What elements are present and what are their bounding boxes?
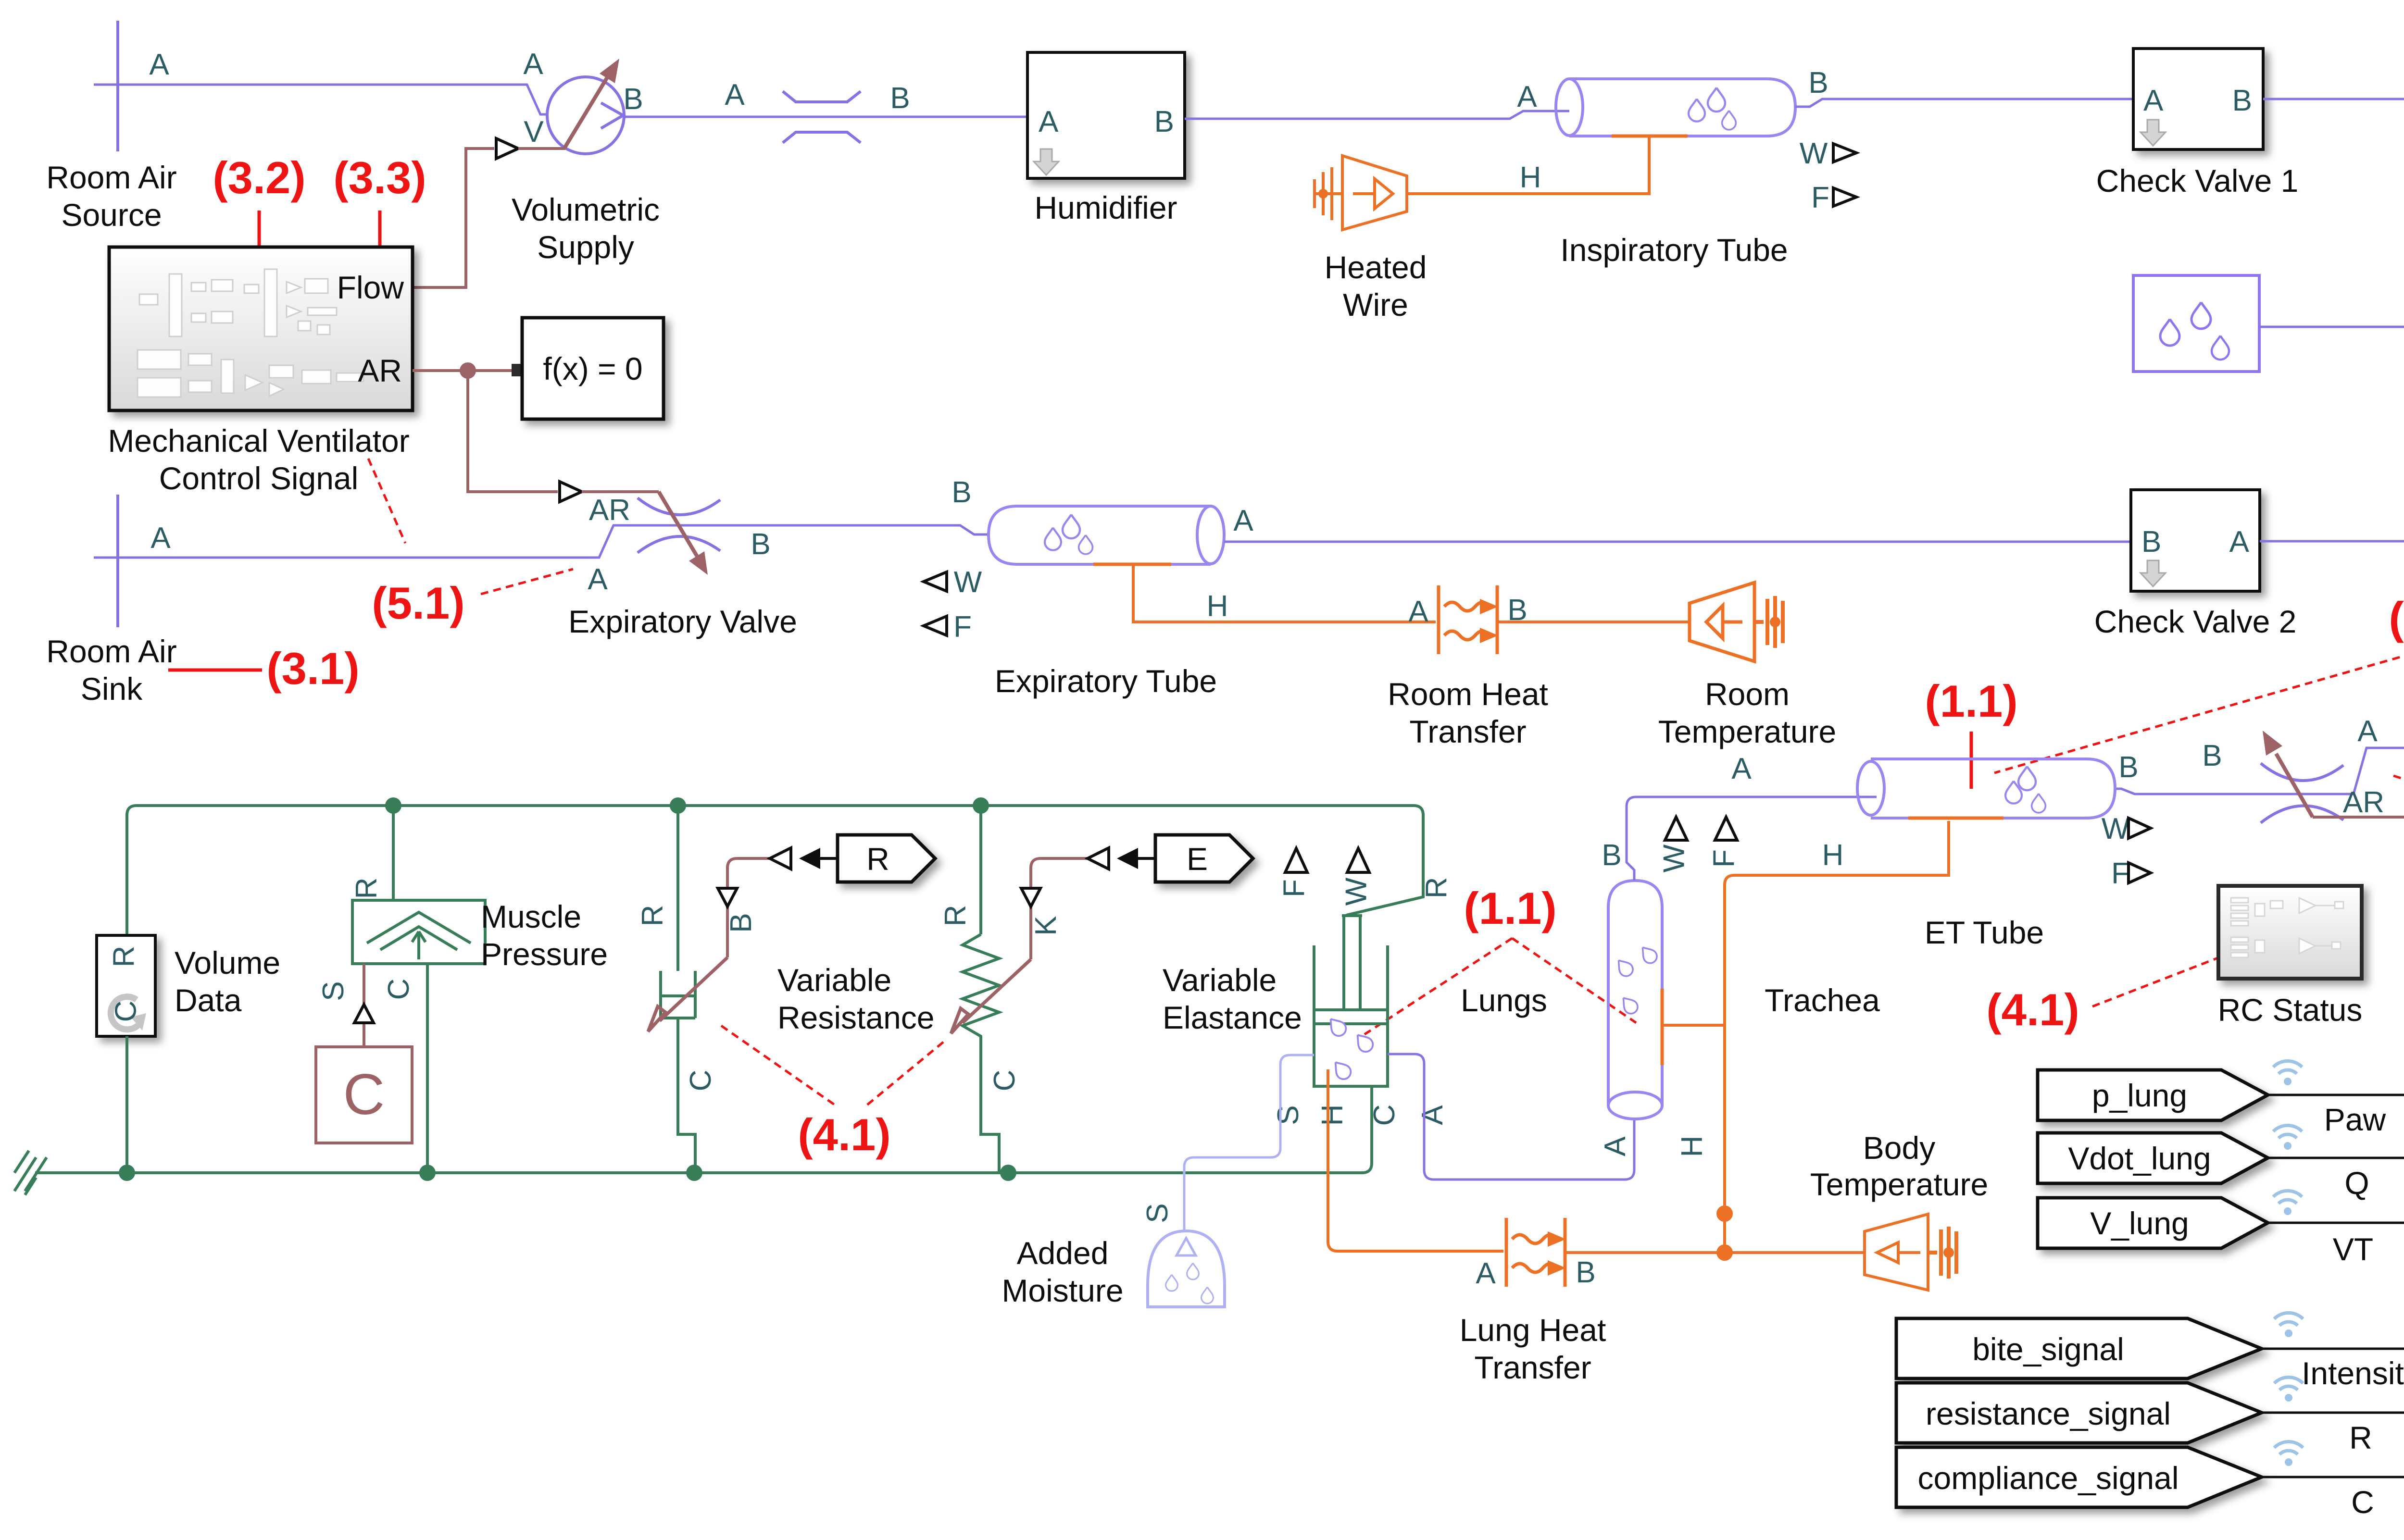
svg-text:B: B xyxy=(2141,525,2161,559)
Heated Wire thermal reference hatch xyxy=(1315,167,1342,220)
svg-text:Control Signal: Control Signal xyxy=(159,460,359,496)
input port triangle V xyxy=(496,138,518,159)
input port triangle AR (expiratory valve) xyxy=(560,482,582,502)
svg-text:H: H xyxy=(1520,161,1541,194)
svg-text:(1.1): (1.1) xyxy=(1464,883,1556,933)
Expiratory Tube droplets xyxy=(1045,528,1061,550)
svg-text:compliance_signal: compliance_signal xyxy=(1918,1460,2179,1496)
svg-text:Source: Source xyxy=(61,197,162,233)
input port triangle K (variable elastance) xyxy=(1021,888,1040,907)
svg-text:A: A xyxy=(1408,595,1428,628)
svg-text:S: S xyxy=(1272,1105,1305,1125)
svg-text:Pressure: Pressure xyxy=(481,936,608,972)
local restriction (inspiratory) xyxy=(783,91,861,102)
svg-text:Vdot_lung: Vdot_lung xyxy=(2068,1141,2211,1176)
From tag bite_signal xyxy=(1896,1318,2262,1379)
svg-text:Variable: Variable xyxy=(1163,962,1277,998)
callout line (4.1)L-a xyxy=(721,1026,836,1105)
svg-text:Room Heat: Room Heat xyxy=(1388,676,1548,712)
wire Volume Data C to bus xyxy=(125,1036,128,1173)
wire Lung Heat Transfer B to Body Temperature xyxy=(1565,1251,1865,1254)
Variable Resistance branch wire xyxy=(676,806,679,971)
svg-text:A: A xyxy=(2357,715,2378,748)
bottom mechanical bus xyxy=(35,1086,1372,1173)
wifi icon V_lung xyxy=(2273,1191,2302,1215)
PS wire AR to f(x)=0 and expiratory valve xyxy=(413,371,558,492)
svg-text:W: W xyxy=(2102,812,2130,845)
svg-text:Expiratory Tube: Expiratory Tube xyxy=(995,663,1217,699)
signal wire C xyxy=(2262,1476,2404,1478)
Added Moisture droplets xyxy=(1166,1275,1178,1291)
Lungs droplets xyxy=(1325,1014,1349,1039)
svg-text:Q: Q xyxy=(2344,1165,2369,1201)
ET Tube body xyxy=(1871,759,2115,818)
svg-text:Body: Body xyxy=(1863,1130,1935,1166)
Body Temperature hatch xyxy=(1928,1227,1956,1279)
svg-text:R: R xyxy=(939,905,972,927)
svg-text:Humidifier: Humidifier xyxy=(1034,190,1177,225)
svg-text:S: S xyxy=(1141,1203,1174,1223)
svg-text:W: W xyxy=(1657,844,1690,872)
wifi icon p_lung xyxy=(2273,1061,2302,1085)
svg-text:F: F xyxy=(1811,181,1829,214)
Body Temperature source trapezoid xyxy=(1865,1214,1928,1290)
From tag arrows (R) xyxy=(770,848,791,869)
bite variable restriction arcs xyxy=(2261,763,2343,781)
wire ET Tube B to bite valve to Sensors B xyxy=(2115,748,2404,794)
svg-text:A: A xyxy=(1517,80,1537,113)
svg-text:C: C xyxy=(343,1062,385,1127)
Muscle Pressure chevrons xyxy=(367,912,471,943)
svg-text:H: H xyxy=(1676,1136,1709,1157)
svg-text:B: B xyxy=(2202,739,2222,772)
Volume Data gray arrow xyxy=(111,997,139,1030)
MVCS faint content xyxy=(138,269,363,397)
svg-text:Volume: Volume xyxy=(175,945,280,981)
svg-text:B: B xyxy=(623,83,643,116)
Body Temperature inner arrow xyxy=(1898,1251,1920,1254)
Trachea heat wall segment xyxy=(1661,989,1664,1065)
Inspiratory Tube droplets xyxy=(1689,99,1705,122)
junction dot AR xyxy=(460,362,476,379)
Humidifier block xyxy=(1027,52,1185,178)
svg-text:Inspiratory Tube: Inspiratory Tube xyxy=(1560,232,1788,268)
Expiratory Valve variable arrow xyxy=(659,492,698,558)
callout line (3.2) xyxy=(258,211,261,246)
svg-text:B: B xyxy=(890,82,910,115)
svg-text:R: R xyxy=(866,841,889,877)
svg-text:C: C xyxy=(988,1070,1021,1092)
PS wire K to From tag (variable elastance) xyxy=(1031,858,1088,959)
junction dot bottom bus 4 xyxy=(1000,1165,1016,1181)
callout line (2.1)-a xyxy=(1994,646,2404,773)
svg-text:(3.1): (3.1) xyxy=(266,643,359,694)
Variable Elastance branch wire xyxy=(979,806,982,934)
svg-text:Intensity: Intensity xyxy=(2302,1355,2404,1391)
Lung Heat Transfer conductor xyxy=(1506,1218,1565,1287)
svg-text:B: B xyxy=(1154,105,1174,138)
svg-text:Transfer: Transfer xyxy=(1474,1350,1591,1385)
svg-text:V_lung: V_lung xyxy=(2090,1205,2189,1241)
svg-text:H: H xyxy=(1316,1105,1349,1126)
svg-text:VT: VT xyxy=(2333,1231,2373,1267)
svg-text:B: B xyxy=(1602,839,1621,872)
signal wire Paw xyxy=(2268,1094,2404,1096)
svg-text:F: F xyxy=(1707,849,1740,868)
svg-text:Temperature: Temperature xyxy=(1658,714,1837,749)
wire Room Air Source A to Volumetric Supply xyxy=(94,85,547,114)
signal wire Intensity xyxy=(2262,1348,2404,1350)
Check Valve 1 gray arrow xyxy=(2141,120,2166,146)
Room Heat Transfer conductor xyxy=(1439,585,1497,654)
svg-text:R: R xyxy=(636,905,669,927)
From tag Vdot_lung xyxy=(2038,1133,2268,1183)
wifi icon bite_signal xyxy=(2274,1313,2303,1337)
From tag E pentagon xyxy=(1155,835,1253,882)
svg-text:B: B xyxy=(751,528,770,561)
Variable Elastance spring xyxy=(963,934,999,1173)
svg-text:(3.2): (3.2) xyxy=(213,152,305,203)
PS wire B to From tag (variable resistance) xyxy=(727,858,769,957)
svg-text:R: R xyxy=(1420,877,1453,899)
From tag arrows (E) xyxy=(1088,848,1109,869)
RC Status block xyxy=(2218,886,2362,979)
callout line (1.1)-b xyxy=(1512,938,1636,1023)
Lungs converter chamber xyxy=(1314,945,1388,1086)
callout line (4.2)-a xyxy=(2393,776,2404,884)
RC Status faint content xyxy=(2231,898,2343,957)
bite valve variable arrow xyxy=(2276,754,2313,817)
PS wire into valve arrow xyxy=(582,490,659,493)
svg-text:Lungs: Lungs xyxy=(1461,982,1547,1018)
svg-text:ET Tube: ET Tube xyxy=(1925,915,2044,950)
wifi icon Vdot_lung xyxy=(2273,1125,2302,1150)
callout line (3.3) xyxy=(378,211,382,246)
svg-text:AR: AR xyxy=(589,494,630,527)
svg-text:A: A xyxy=(1731,752,1752,785)
svg-text:Sink: Sink xyxy=(81,671,143,707)
Heated Wire inner arrow xyxy=(1353,192,1375,195)
svg-text:Supply: Supply xyxy=(537,229,634,265)
svg-text:Volumetric: Volumetric xyxy=(512,192,660,227)
svg-text:C: C xyxy=(2351,1484,2374,1520)
PS wire Muscle Pressure S to C source xyxy=(363,964,365,1047)
wire V triangle to circle xyxy=(518,147,565,150)
svg-text:Lung Heat: Lung Heat xyxy=(1460,1312,1606,1348)
Volumetric Supply variable arrow xyxy=(564,75,609,148)
junction dot top bus 2 xyxy=(670,797,686,814)
svg-text:B: B xyxy=(952,476,971,509)
Check Valve 1 block xyxy=(2133,49,2263,149)
Volumetric Supply flow chevron xyxy=(601,103,623,128)
svg-text:Transfer: Transfer xyxy=(1409,714,1526,749)
junction dot bottom bus 2 xyxy=(419,1165,436,1181)
svg-text:A: A xyxy=(149,48,169,81)
Room Temperature inner arrow xyxy=(1723,621,1742,624)
svg-text:Variable: Variable xyxy=(777,962,891,998)
svg-text:B: B xyxy=(2118,751,2138,784)
wire Heated Wire H to Inspiratory Tube xyxy=(1408,136,1649,194)
svg-text:(1.1): (1.1) xyxy=(1925,676,2017,726)
Lungs piston rod xyxy=(1342,916,1362,1010)
wire Expiratory Tube A to Check Valve 2 B xyxy=(1224,541,2131,543)
svg-text:A: A xyxy=(588,563,608,596)
svg-text:AR: AR xyxy=(358,353,402,388)
svg-text:Moisture: Moisture xyxy=(1002,1273,1123,1308)
svg-text:Wire: Wire xyxy=(1343,287,1408,323)
wire Lungs S to Added Moisture (light) xyxy=(1184,1055,1314,1231)
svg-text:Paw: Paw xyxy=(2324,1102,2386,1137)
svg-text:F: F xyxy=(2111,857,2129,890)
Variable Resistance control arrow xyxy=(660,957,727,1021)
Added Moisture port triangle xyxy=(1177,1238,1196,1255)
svg-text:Mechanical Ventilator: Mechanical Ventilator xyxy=(108,423,409,459)
From tag compliance_signal xyxy=(1896,1447,2262,1507)
wire Inspiratory Tube B to Check Valve 1 xyxy=(1795,99,2133,107)
svg-text:Expiratory Valve: Expiratory Valve xyxy=(568,604,797,639)
svg-text:E: E xyxy=(1187,841,1208,877)
wire Trachea H / ET Tube H (orange trunk) xyxy=(1662,821,1949,1253)
svg-text:A: A xyxy=(1476,1257,1496,1290)
svg-text:Added: Added xyxy=(1017,1235,1109,1271)
svg-text:p_lung: p_lung xyxy=(2092,1078,2187,1113)
Check Valve 2 gray arrow xyxy=(2141,560,2166,586)
svg-text:(2.1): (2.1) xyxy=(2389,593,2404,643)
svg-text:H: H xyxy=(1207,590,1228,623)
wire Room Heat Transfer B to Room Temperature xyxy=(1497,621,1690,623)
svg-text:resistance_signal: resistance_signal xyxy=(1926,1396,2171,1431)
moisture source box xyxy=(2133,275,2259,372)
svg-text:bite_signal: bite_signal xyxy=(1972,1331,2124,1367)
From tag resistance_signal xyxy=(1896,1383,2262,1443)
svg-text:C: C xyxy=(684,1070,717,1092)
callout line (1.1) ET xyxy=(1970,732,1973,789)
Trachea tube body xyxy=(1608,881,1662,1105)
wire Check Valve 1 B to junction xyxy=(2263,99,2404,652)
svg-text:W: W xyxy=(1800,137,1828,170)
svg-text:Data: Data xyxy=(175,982,242,1018)
svg-text:C: C xyxy=(1368,1105,1401,1126)
svg-text:f(x) = 0: f(x) = 0 xyxy=(543,351,642,386)
svg-text:(3.3): (3.3) xyxy=(333,152,426,203)
svg-text:Elastance: Elastance xyxy=(1163,1000,1302,1035)
Humidifier gray arrow xyxy=(1034,149,1059,175)
svg-text:Check Valve 1: Check Valve 1 xyxy=(2096,163,2299,199)
Muscle Pressure source block xyxy=(352,900,485,964)
junction dot top bus 1 xyxy=(385,797,401,814)
svg-text:F: F xyxy=(1277,879,1311,897)
C constant source block xyxy=(316,1047,412,1143)
svg-text:W: W xyxy=(1340,877,1373,906)
Expiratory Tube heat segment xyxy=(1093,563,1171,566)
signal wire VT xyxy=(2268,1222,2404,1224)
svg-text:A: A xyxy=(2229,525,2250,559)
svg-text:Heated: Heated xyxy=(1325,249,1427,285)
Expiratory Valve arcs xyxy=(638,498,720,515)
Room Temperature hatch xyxy=(1754,596,1783,648)
svg-text:B: B xyxy=(725,913,758,932)
wifi icon resistance_signal xyxy=(2274,1377,2303,1402)
From tag V_lung xyxy=(2038,1198,2268,1248)
From tag R pentagon xyxy=(838,835,935,882)
Room Air Source symbol xyxy=(116,21,119,151)
input port triangle B (variable resistance) xyxy=(718,888,737,907)
wire Lungs H to Lung Heat Transfer xyxy=(1328,1069,1503,1251)
Expiratory Tube body xyxy=(989,506,1211,564)
Added Moisture dome xyxy=(1148,1231,1225,1307)
svg-text:Flow: Flow xyxy=(337,270,404,305)
wire Room Air Sink to Expiratory Valve A xyxy=(94,525,989,558)
wire Expiratory Tube H to Room Heat Transfer xyxy=(1133,564,1436,622)
junction dot top bus 3 xyxy=(973,797,989,814)
svg-text:A: A xyxy=(725,78,745,112)
Volume Data block xyxy=(97,935,155,1036)
Variable Elastance control arrow xyxy=(963,959,1031,1023)
svg-text:Check Valve 2: Check Valve 2 xyxy=(2094,604,2297,639)
svg-text:R: R xyxy=(350,878,383,899)
svg-text:R: R xyxy=(2349,1420,2372,1455)
wire Muscle Pressure C to bus xyxy=(426,964,429,1173)
svg-text:(4.1): (4.1) xyxy=(798,1109,890,1160)
wire Humidifier B to Inspiratory Tube A xyxy=(1185,111,1569,119)
svg-text:F: F xyxy=(953,610,972,644)
Expiratory Tube W port xyxy=(924,572,947,591)
svg-text:B: B xyxy=(2232,84,2252,117)
ET Tube droplets xyxy=(2005,781,2022,804)
svg-text:Muscle: Muscle xyxy=(481,899,581,934)
svg-text:Temperature: Temperature xyxy=(1810,1167,1989,1202)
callout line (1.1)-a xyxy=(1365,938,1512,1034)
svg-text:A: A xyxy=(2143,84,2164,117)
svg-text:A: A xyxy=(150,522,171,555)
From tag p_lung xyxy=(2038,1070,2268,1120)
input port triangle S (muscle pressure) xyxy=(354,1005,374,1023)
callout line (5.1)-b xyxy=(481,569,573,594)
svg-text:AR: AR xyxy=(2343,786,2384,819)
svg-text:C: C xyxy=(382,979,415,1000)
svg-text:RC Status: RC Status xyxy=(2218,992,2363,1028)
PS wire Flow to V input xyxy=(413,149,494,287)
svg-text:(4.1): (4.1) xyxy=(1986,984,2079,1035)
svg-text:Trachea: Trachea xyxy=(1765,982,1880,1018)
signal wire Q xyxy=(2268,1157,2404,1159)
callout line (4.1)L-b xyxy=(866,1042,943,1105)
junction dot bottom bus 1 xyxy=(119,1165,135,1181)
callout line (5.1)-a xyxy=(368,459,405,543)
Variable Resistance damper symbol xyxy=(661,971,695,1018)
svg-text:A: A xyxy=(523,48,543,81)
svg-text:Room Air: Room Air xyxy=(46,633,176,669)
wifi icon compliance_signal xyxy=(2274,1441,2303,1466)
svg-text:W: W xyxy=(954,566,982,599)
wire bus to Muscle Pressure R xyxy=(392,806,395,900)
Trachea droplets xyxy=(1614,956,1636,979)
svg-text:A: A xyxy=(1416,1105,1449,1125)
svg-text:Resistance: Resistance xyxy=(777,1000,935,1035)
svg-text:A: A xyxy=(1599,1136,1632,1156)
svg-text:H: H xyxy=(1822,839,1844,872)
ET Tube heat segment xyxy=(1908,817,2003,820)
Mechanical Ventilator Control Signal block xyxy=(109,247,413,410)
Heated Wire controlled heat source trapezoid xyxy=(1342,156,1407,230)
top mechanical bus xyxy=(127,806,1423,935)
wire Check Valve 2 A to Y Piece B xyxy=(2260,541,2404,699)
signal wire R xyxy=(2262,1412,2404,1414)
moisture source droplets xyxy=(2160,319,2179,346)
Expiratory Tube F port xyxy=(924,616,947,635)
Lungs piston plate xyxy=(1314,1010,1388,1024)
svg-text:A: A xyxy=(1233,504,1253,537)
svg-text:B: B xyxy=(1576,1256,1595,1289)
svg-text:V: V xyxy=(524,115,544,149)
wire Trachea B to ET Tube A xyxy=(1627,797,1877,881)
Inspiratory Tube heat segment xyxy=(1612,135,1688,138)
svg-text:S: S xyxy=(317,981,350,1001)
junction dot orange upper xyxy=(1716,1205,1733,1222)
wire moisture source to junction xyxy=(2259,326,2404,328)
svg-text:R: R xyxy=(107,946,140,968)
svg-text:A: A xyxy=(1039,105,1059,138)
Room Air Sink symbol xyxy=(116,495,119,627)
wire Lungs A to Trachea A xyxy=(1388,1054,1634,1180)
junction dot bottom bus 3 xyxy=(686,1165,702,1181)
mechanical ground xyxy=(14,1151,47,1195)
f(x)=0 block xyxy=(522,318,664,419)
junction dot orange lower xyxy=(1716,1244,1733,1261)
svg-text:B: B xyxy=(1808,66,1828,99)
svg-text:(5.1): (5.1) xyxy=(372,578,464,628)
Inspiratory Tube body xyxy=(1569,79,1795,136)
svg-text:Room Air: Room Air xyxy=(46,160,176,195)
svg-text:K: K xyxy=(1029,916,1063,935)
Room Temperature source trapezoid xyxy=(1690,583,1754,661)
callout line (4.1)R xyxy=(2092,931,2289,1006)
svg-text:Room: Room xyxy=(1705,676,1790,712)
wire Volumetric Supply B to restriction xyxy=(624,116,1027,118)
callout line (3.1) xyxy=(168,669,262,672)
Check Valve 2 block xyxy=(2131,490,2260,591)
f(x)=0 input port square xyxy=(512,364,522,376)
Volumetric Supply circle xyxy=(547,77,624,154)
svg-text:C: C xyxy=(109,1001,142,1022)
